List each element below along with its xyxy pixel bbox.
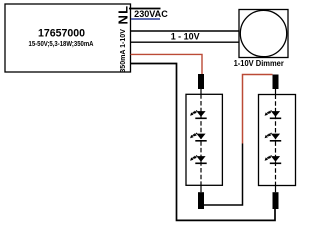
- module 2 top terminal: [273, 75, 279, 90]
- wire series link red part (module2 in): [243, 75, 273, 144]
- svg-text:230VAC: 230VAC: [134, 9, 168, 19]
- wire mains L (black stub): [129, 8, 161, 10]
- wire stub terminal to module 1 top: [200, 89, 202, 94]
- LED D5: [265, 133, 282, 142]
- svg-text:1-10V Dimmer: 1-10V Dimmer: [234, 58, 285, 68]
- LED D6: [265, 155, 282, 164]
- LED D4: [265, 110, 282, 119]
- wire stub terminal to module 2 top: [275, 89, 277, 95]
- module 1 dashed center line: [200, 94, 202, 185]
- module 1 bottom terminal: [198, 192, 204, 209]
- svg-text:NL: NL: [115, 5, 130, 25]
- svg-text:350mA 1-10V: 350mA 1-10V: [118, 28, 127, 72]
- LED D3: [190, 155, 207, 164]
- wire mains N (blue stub): [131, 18, 160, 20]
- svg-text:1 - 10V: 1 - 10V: [171, 31, 201, 42]
- wire stub module 2 bottom to terminal: [275, 186, 277, 193]
- svg-text:17657000: 17657000: [38, 28, 85, 40]
- LED D2: [190, 133, 207, 142]
- wire stub module 1 bottom to terminal: [200, 185, 202, 192]
- module 1 top terminal: [198, 74, 204, 89]
- driver box (converter 17657000): [5, 4, 131, 72]
- wire series link black part (module1 out): [203, 144, 242, 206]
- dimmer box: [239, 10, 288, 58]
- module 2 dashed center line: [275, 95, 277, 186]
- wire LED- (black) return from module 2 to driver: [131, 64, 276, 221]
- module 2 bottom terminal: [273, 192, 279, 209]
- LED module 1 box: [186, 94, 222, 185]
- dimmer knob circle: [240, 10, 286, 56]
- LED module 2 box: [259, 95, 296, 186]
- wire LED+ (red) from driver to module 1: [131, 54, 203, 74]
- wire dim control upper: [131, 30, 240, 32]
- wire dim control lower: [131, 41, 240, 43]
- LED D1: [190, 110, 207, 119]
- svg-text:15-50V;5,3-18W;350mA: 15-50V;5,3-18W;350mA: [29, 39, 94, 48]
